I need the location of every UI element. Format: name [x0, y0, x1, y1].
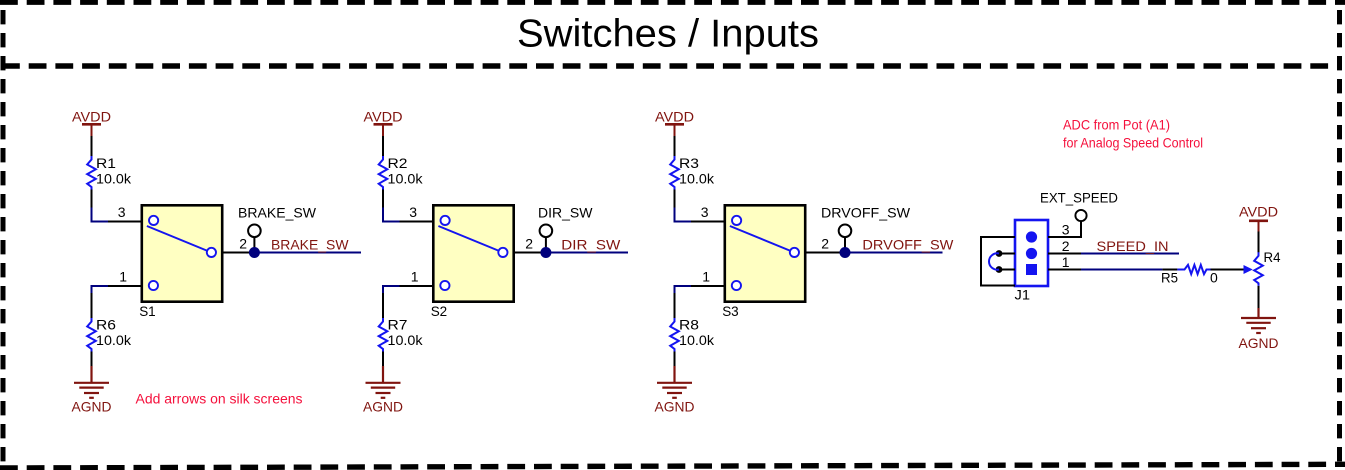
wire R2 to S2 pin 3	[383, 208, 400, 222]
svg-text:AGND: AGND	[72, 399, 112, 415]
wire R3 to S3 pin 3	[675, 208, 692, 222]
svg-text:1: 1	[119, 269, 127, 285]
svg-text:10.0k: 10.0k	[96, 332, 132, 348]
resistor R6 10.0k (pull-down)	[87, 293, 96, 366]
wire S2 pin 1 to R7	[383, 286, 400, 293]
svg-text:10.0k: 10.0k	[679, 332, 715, 348]
svg-text:AVDD: AVDD	[655, 109, 694, 125]
resistor R3 10.0k (pull-up)	[670, 136, 679, 208]
svg-text:for Analog Speed Control: for Analog Speed Control	[1063, 135, 1203, 151]
svg-text:10.0k: 10.0k	[388, 170, 424, 186]
resistor R8 10.0k (pull-down)	[670, 293, 679, 366]
svg-text:Add arrows on silk screens: Add arrows on silk screens	[136, 391, 303, 407]
resistor R1 10.0k (pull-up)	[87, 136, 96, 208]
wire net DIR_SW	[546, 252, 628, 254]
wire R1 to S1 pin 3	[92, 208, 109, 222]
junction node DIR_SW	[540, 247, 551, 258]
wire net DRVOFF_SW	[845, 252, 943, 254]
svg-text:DRVOFF_SW: DRVOFF_SW	[821, 205, 911, 221]
switch S2 (SPDT slide switch)	[400, 205, 546, 301]
resistor R5 0 ohm	[1177, 265, 1210, 274]
ground AGND (R4)	[1241, 308, 1276, 333]
svg-text:J1: J1	[1015, 286, 1031, 302]
svg-text:AVDD: AVDD	[1239, 204, 1278, 220]
svg-text:1: 1	[411, 269, 419, 285]
outer dashed page border: right edge	[1337, 10, 1342, 462]
svg-text:3: 3	[118, 204, 126, 220]
power AVDD (column 1)	[82, 124, 101, 136]
svg-text:1: 1	[1062, 254, 1070, 270]
svg-text:AVDD: AVDD	[364, 109, 403, 125]
switch S3 (SPDT slide switch)	[691, 205, 845, 301]
jumper contact dots	[996, 250, 1003, 257]
svg-text:AVDD: AVDD	[72, 109, 111, 125]
wire J1 pin 1 to R5	[1048, 269, 1081, 271]
svg-text:BRAKE_SW: BRAKE_SW	[238, 205, 317, 221]
terminal testpoint EXT_SPEED	[1075, 210, 1086, 221]
svg-text:EXT_SPEED: EXT_SPEED	[1040, 189, 1118, 205]
terminal testpoint DIR_SW	[540, 225, 553, 253]
svg-text:DRVOFF_SW: DRVOFF_SW	[862, 237, 954, 253]
R4 wiper arrow	[1244, 265, 1253, 274]
junction node BRAKE_SW	[249, 247, 260, 258]
svg-text:2: 2	[239, 236, 247, 252]
svg-text:0: 0	[1210, 269, 1218, 285]
svg-text:Switches / Inputs: Switches / Inputs	[517, 12, 819, 55]
jumper shunt bracket on J1	[981, 237, 1015, 286]
switch S1 (SPDT slide switch)	[108, 205, 254, 301]
svg-text:S2: S2	[431, 303, 448, 319]
svg-text:R3: R3	[679, 155, 699, 171]
svg-text:3: 3	[701, 204, 709, 220]
wire net BRAKE_SW	[254, 252, 361, 254]
svg-text:1: 1	[702, 269, 710, 285]
svg-text:10.0k: 10.0k	[96, 170, 132, 186]
svg-text:AGND: AGND	[363, 399, 403, 415]
svg-text:10.0k: 10.0k	[679, 170, 715, 186]
outer dashed page border: left edge	[1, 10, 6, 462]
svg-text:DIR_SW: DIR_SW	[561, 237, 621, 253]
wire S1 pin 1 to R6	[92, 286, 109, 293]
svg-text:R8: R8	[679, 317, 699, 333]
svg-text:R2: R2	[388, 155, 408, 171]
terminal testpoint BRAKE_SW	[248, 225, 261, 253]
svg-text:AGND: AGND	[655, 399, 695, 415]
svg-text:R7: R7	[388, 317, 408, 333]
jumper wire arc	[989, 253, 999, 269]
potentiometer R4	[1254, 231, 1263, 308]
ground AGND (column 3)	[657, 366, 692, 398]
connector J1 (3-pin header)	[1015, 220, 1048, 286]
wire J1 pin 3 to EXT_SPEED terminal	[1048, 221, 1081, 237]
ground AGND (column 1)	[74, 366, 109, 398]
svg-text:3: 3	[1062, 222, 1070, 238]
ground AGND (column 2)	[366, 366, 401, 398]
svg-text:R4: R4	[1264, 249, 1281, 265]
junction node DRVOFF_SW	[840, 247, 851, 258]
svg-text:DIR_SW: DIR_SW	[538, 205, 593, 221]
resistor R2 10.0k (pull-up)	[379, 136, 388, 208]
svg-text:S1: S1	[139, 303, 156, 319]
svg-text:ADC from Pot (A1): ADC from Pot (A1)	[1063, 117, 1170, 133]
svg-text:R5: R5	[1161, 269, 1178, 285]
svg-text:10.0k: 10.0k	[388, 332, 424, 348]
outer dashed page border: bottom edge	[0, 464, 1345, 468]
power AVDD (column 2)	[374, 124, 393, 136]
svg-text:2: 2	[821, 236, 829, 252]
svg-text:R1: R1	[96, 155, 116, 171]
svg-text:2: 2	[525, 236, 533, 252]
svg-text:SPEED_IN: SPEED_IN	[1097, 238, 1169, 254]
dashed title divider	[2, 63, 1342, 68]
terminal testpoint DRVOFF_SW	[839, 225, 852, 253]
wire net SPEED_IN (J1 pin 2)	[1048, 253, 1081, 255]
svg-text:BRAKE_SW: BRAKE_SW	[271, 237, 349, 253]
resistor R7 10.0k (pull-down)	[379, 293, 388, 366]
wire S3 pin 1 to R8	[675, 286, 692, 293]
power AVDD (column 3)	[665, 124, 684, 136]
outer dashed page border: top edge	[0, 0, 1345, 5]
svg-text:S3: S3	[722, 303, 739, 319]
svg-text:3: 3	[409, 204, 417, 220]
power AVDD (R4)	[1249, 221, 1268, 232]
svg-text:R6: R6	[96, 317, 116, 333]
svg-text:2: 2	[1062, 238, 1070, 254]
wire R5 to R4 wiper	[1211, 269, 1246, 271]
svg-text:AGND: AGND	[1239, 335, 1279, 351]
